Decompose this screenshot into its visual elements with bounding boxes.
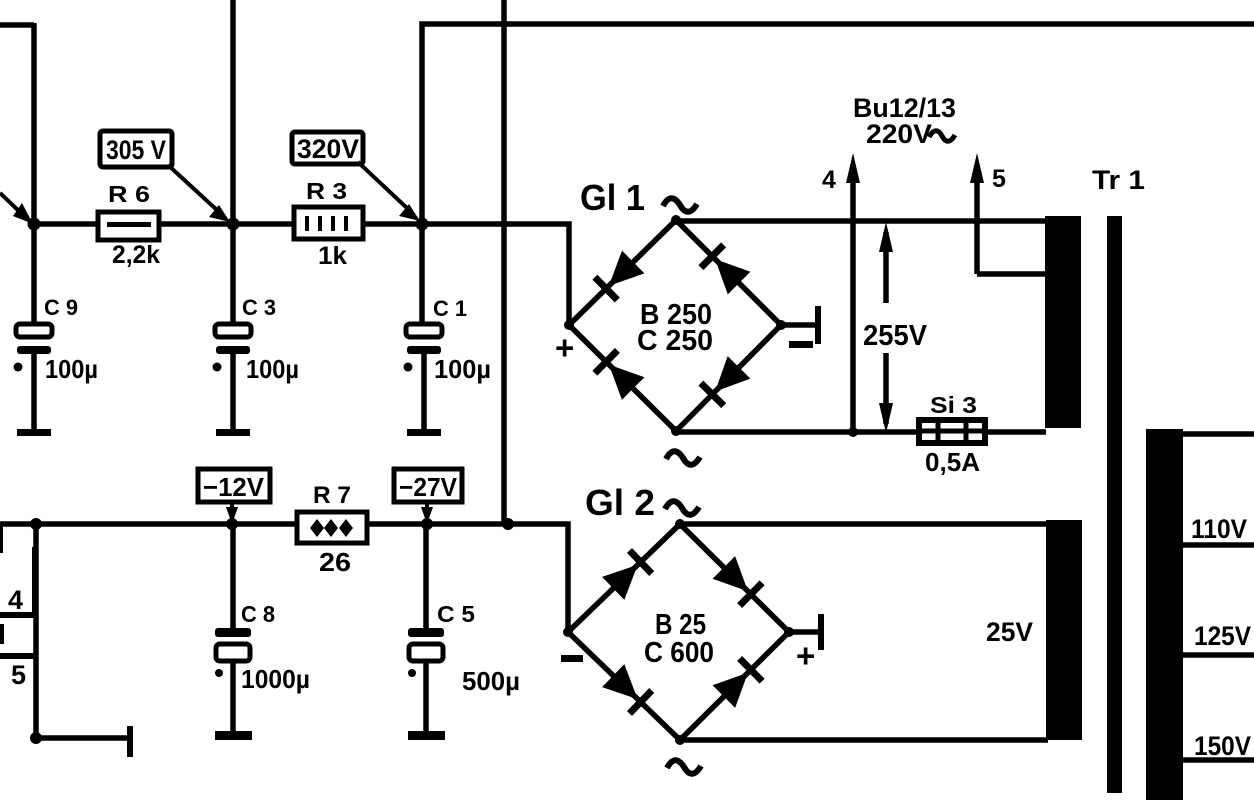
svg-text:C 5: C 5 — [437, 601, 475, 627]
svg-text:0,5A: 0,5A — [925, 447, 980, 477]
svg-text:500µ: 500µ — [462, 666, 520, 696]
svg-text:C 1: C 1 — [433, 296, 467, 321]
svg-text:C 3: C 3 — [242, 295, 276, 320]
svg-text:C 600: C 600 — [644, 637, 714, 669]
svg-text:C 250: C 250 — [637, 325, 713, 357]
svg-text:4: 4 — [822, 166, 836, 194]
svg-text:R 7: R 7 — [313, 482, 351, 509]
svg-text:Gl 2: Gl 2 — [585, 482, 655, 523]
svg-text:C 9: C 9 — [44, 295, 78, 320]
svg-text:1k: 1k — [318, 242, 347, 270]
svg-text:1000µ: 1000µ — [241, 664, 310, 694]
svg-text:Si 3: Si 3 — [930, 392, 977, 418]
svg-text:−12V: −12V — [203, 472, 265, 502]
svg-text:100µ: 100µ — [45, 354, 98, 384]
svg-text:Gl 1: Gl 1 — [580, 177, 645, 218]
svg-text:220V: 220V — [866, 119, 932, 149]
svg-text:R 6: R 6 — [108, 181, 150, 207]
svg-text:100µ: 100µ — [434, 354, 491, 384]
svg-text:+: + — [796, 637, 815, 674]
svg-text:150V: 150V — [1194, 731, 1251, 761]
svg-text:255V: 255V — [863, 320, 928, 352]
svg-text:Tr 1: Tr 1 — [1092, 165, 1145, 195]
svg-text:5: 5 — [992, 165, 1006, 193]
svg-text:26: 26 — [319, 547, 351, 577]
svg-text:25V: 25V — [986, 617, 1033, 647]
svg-text:5: 5 — [11, 660, 26, 690]
svg-text:R 3: R 3 — [306, 178, 347, 204]
svg-text:C 8: C 8 — [241, 601, 275, 627]
svg-text:4: 4 — [8, 585, 23, 615]
svg-text:305 V: 305 V — [106, 135, 166, 165]
svg-text:110V: 110V — [1191, 514, 1247, 544]
svg-text:+: + — [555, 329, 574, 366]
svg-text:320V: 320V — [297, 134, 359, 164]
svg-text:100µ: 100µ — [246, 354, 299, 384]
svg-text:125V: 125V — [1194, 621, 1251, 651]
svg-text:2,2k: 2,2k — [112, 241, 160, 269]
svg-text:−27V: −27V — [399, 472, 458, 502]
